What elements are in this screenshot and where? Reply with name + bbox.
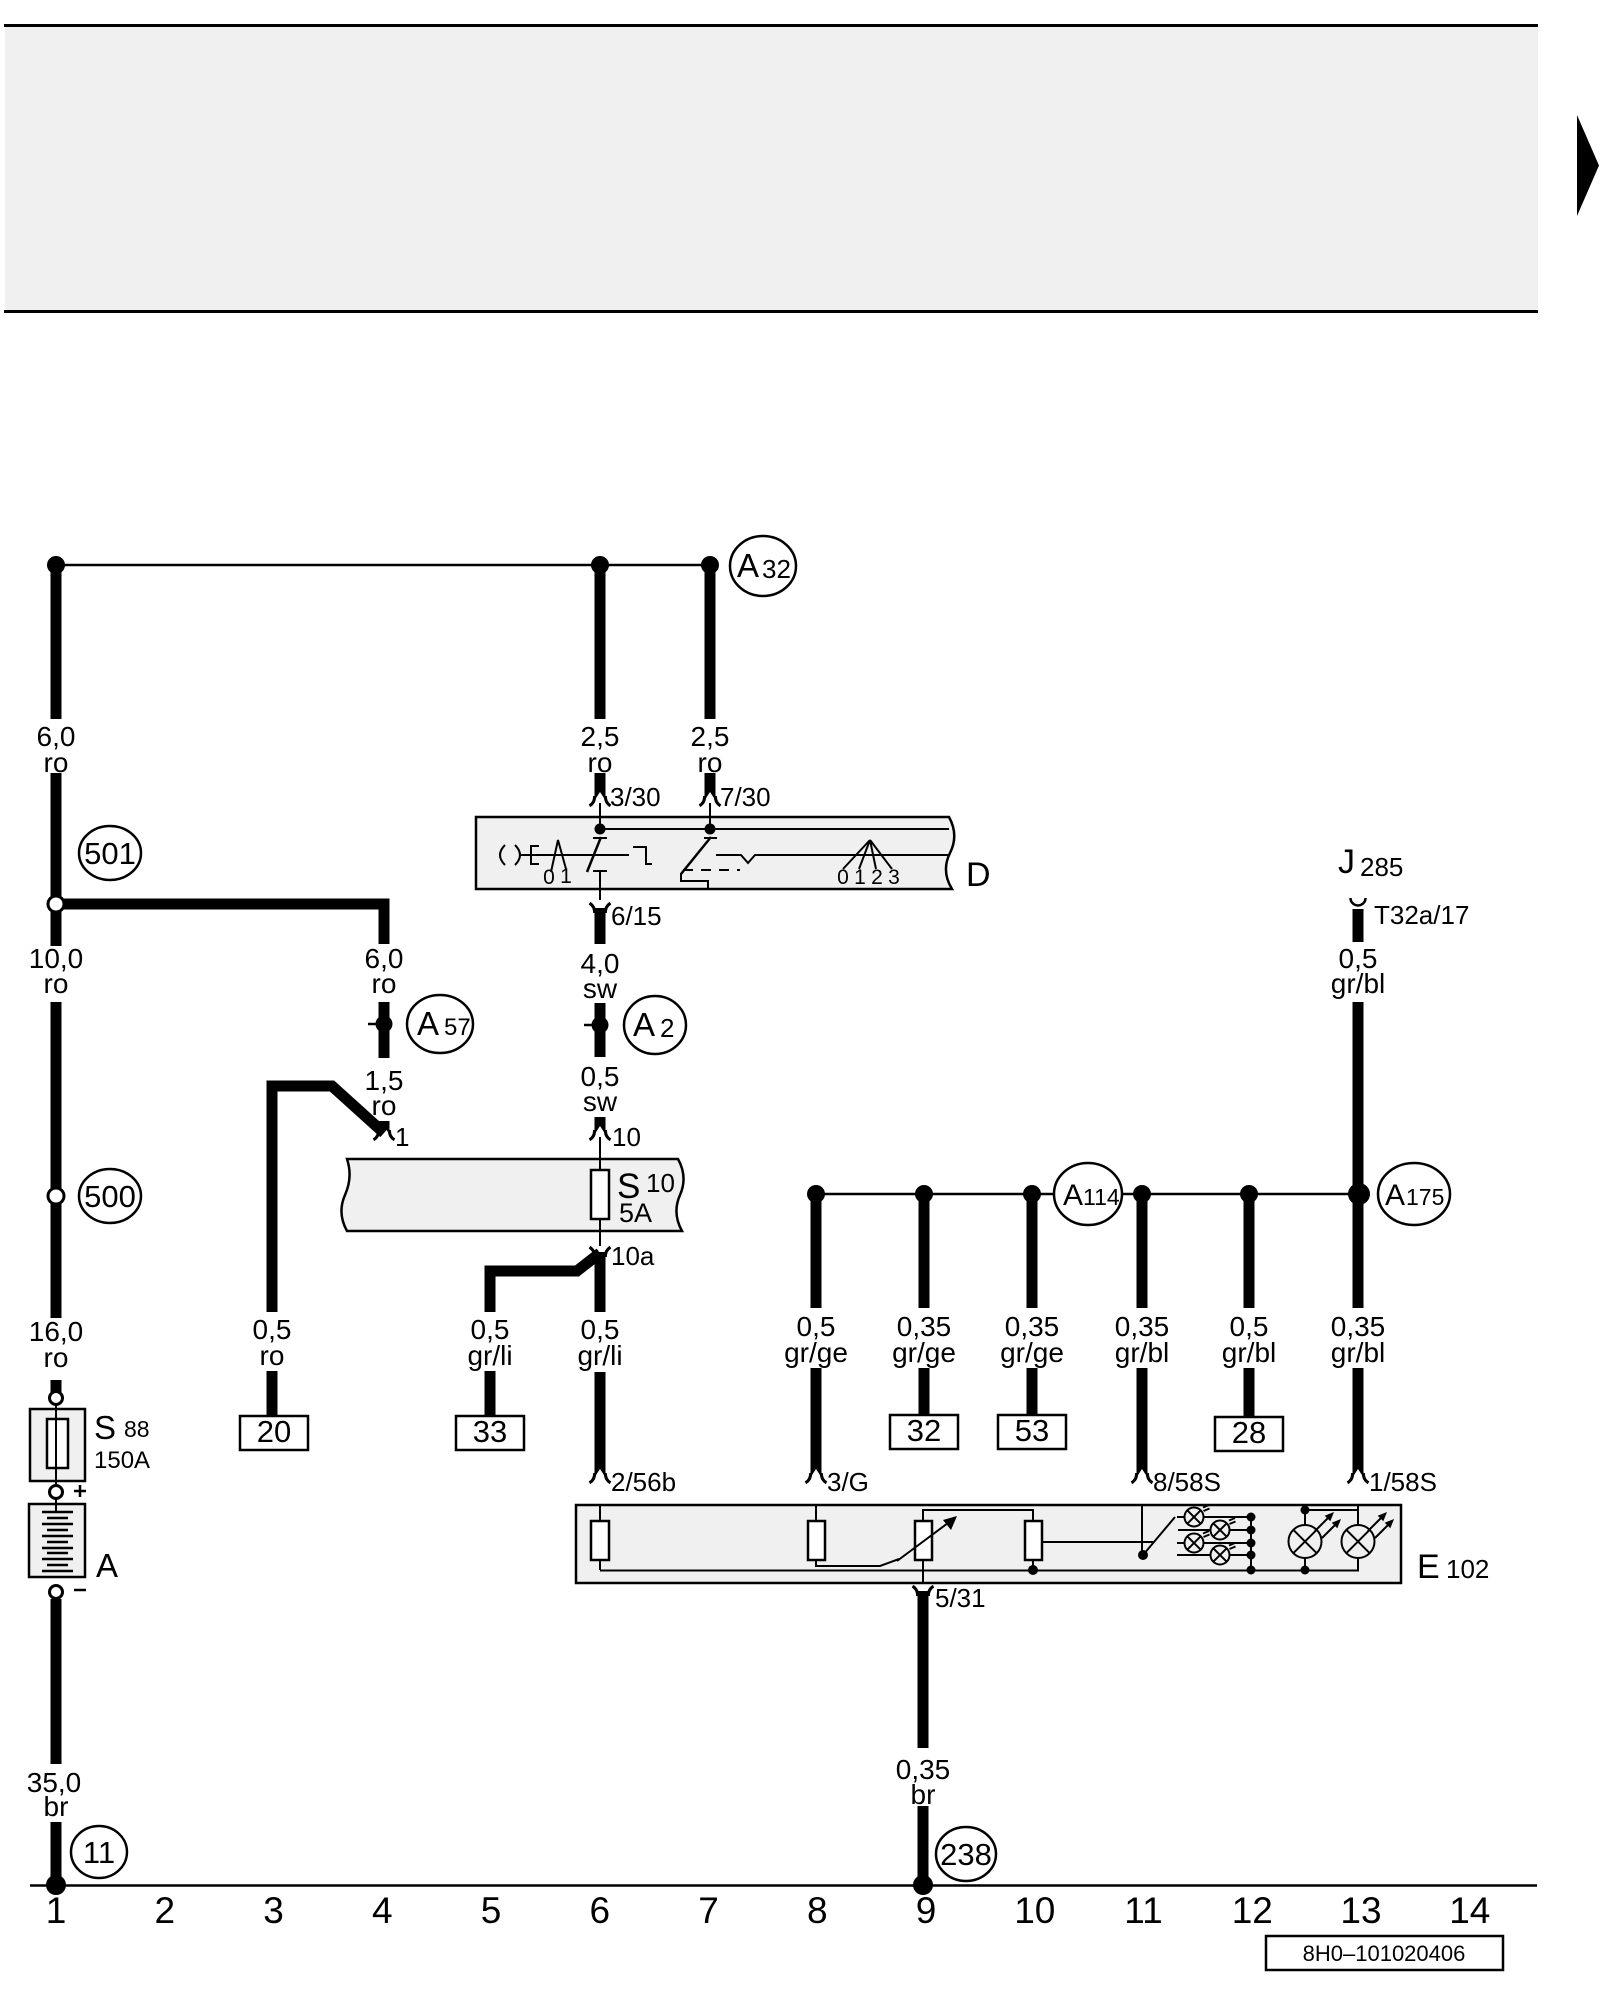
svg-text:A: A xyxy=(737,547,759,584)
svg-text:10: 10 xyxy=(646,1168,675,1198)
wire 0,35 gr/ge to connection 53 xyxy=(1027,1194,1038,1308)
svg-text:A: A xyxy=(417,1005,439,1042)
svg-text:5/31: 5/31 xyxy=(935,1583,986,1613)
resistor at 2/56b xyxy=(591,1521,609,1560)
svg-text:ro: ro xyxy=(372,1090,397,1121)
fuse S88 150A xyxy=(50,1392,63,1405)
wire 2,5 ro to terminal 3/30 xyxy=(595,565,606,719)
pilot lamp 1 xyxy=(1185,1505,1210,1527)
wire junction bus 501 xyxy=(56,904,384,944)
pilot lamp feed lines xyxy=(1177,1516,1251,1518)
svg-text:2: 2 xyxy=(660,1013,674,1043)
starter contact 50 xyxy=(681,837,711,874)
svg-text:11: 11 xyxy=(1124,1890,1162,1931)
wire 0,5 ro elbow to connection 20 xyxy=(272,1086,384,1312)
page-turn arrow xyxy=(1577,115,1599,216)
battery plus terminal xyxy=(50,1486,63,1499)
junction at 1/58S column xyxy=(1348,1183,1370,1205)
svg-text:A: A xyxy=(1063,1179,1083,1212)
svg-text:4: 4 xyxy=(372,1890,393,1931)
svg-text:D: D xyxy=(966,856,991,894)
svg-text:501: 501 xyxy=(84,836,136,871)
svg-text:3: 3 xyxy=(263,1890,284,1931)
svg-text:ro: ro xyxy=(44,968,69,999)
svg-text:175: 175 xyxy=(1406,1184,1444,1210)
svg-text:gr/ge: gr/ge xyxy=(1000,1337,1064,1368)
terminal 1/58S xyxy=(1348,1469,1369,1483)
svg-text:10: 10 xyxy=(612,1122,641,1152)
connector A2 junction xyxy=(584,1024,592,1027)
wire 35,0 br (ground strap) xyxy=(51,1599,62,1764)
svg-text:1: 1 xyxy=(46,1890,67,1931)
internal bottom bus 31 xyxy=(600,1570,1359,1572)
svg-text:10a: 10a xyxy=(611,1241,655,1271)
node at 3/30 xyxy=(595,824,606,835)
terminal 3/G xyxy=(806,1469,827,1483)
pilot lamp 2 xyxy=(1211,1518,1236,1540)
svg-text:500: 500 xyxy=(84,1179,136,1214)
svg-text:9: 9 xyxy=(916,1890,937,1931)
wire 6,0 ro (battery column upper) xyxy=(51,565,62,719)
svg-text:3: 3 xyxy=(888,866,900,889)
wire 0,35 gr/bl to 8/58S xyxy=(1137,1194,1148,1308)
junction at 3/G column xyxy=(807,1185,825,1203)
svg-text:7: 7 xyxy=(698,1890,719,1931)
svg-text:A: A xyxy=(1385,1179,1405,1212)
svg-text:102: 102 xyxy=(1446,1554,1489,1584)
svg-text:53: 53 xyxy=(1015,1413,1049,1448)
svg-text:sw: sw xyxy=(583,1086,618,1117)
svg-text:gr/li: gr/li xyxy=(467,1340,512,1371)
svg-text:238: 238 xyxy=(940,1837,992,1872)
junction at 32 column xyxy=(915,1185,933,1203)
svg-text:28: 28 xyxy=(1232,1415,1266,1450)
diagram number box 8H0-101020406 xyxy=(1266,1936,1503,1970)
svg-text:6: 6 xyxy=(590,1890,611,1931)
svg-text:12: 12 xyxy=(1232,1890,1273,1931)
svg-text:8H0–101020406: 8H0–101020406 xyxy=(1303,1941,1466,1966)
pin 3/30 lead xyxy=(599,803,601,829)
svg-text:8: 8 xyxy=(807,1890,828,1931)
svg-text:J: J xyxy=(1338,843,1355,881)
ignition lock symbol xyxy=(500,845,505,865)
wire 0,35 br from 5/31 xyxy=(918,1591,929,1748)
svg-text:57: 57 xyxy=(444,1014,471,1041)
wire internal bus 30 xyxy=(600,828,949,830)
ignition contact 15 xyxy=(587,837,601,872)
light switch E102 xyxy=(576,1505,1401,1583)
svg-text:14: 14 xyxy=(1449,1890,1490,1931)
terminal 3/30 xyxy=(590,792,611,806)
junction on bus at 3/30 column xyxy=(591,556,609,574)
ignition/starter switch D xyxy=(476,817,954,889)
svg-text:sw: sw xyxy=(583,973,618,1004)
svg-text:3/30: 3/30 xyxy=(610,782,661,812)
svg-text:1: 1 xyxy=(395,1122,409,1152)
svg-text:6/15: 6/15 xyxy=(611,901,662,931)
connector A114 xyxy=(1054,1163,1122,1225)
terminal 1 on fuse box xyxy=(374,1126,395,1140)
node 501 (welded joint) xyxy=(48,896,64,912)
svg-text:E: E xyxy=(1417,1548,1440,1586)
svg-text:0: 0 xyxy=(543,866,555,889)
junction on bus at battery column xyxy=(47,556,65,574)
svg-text:gr/bl: gr/bl xyxy=(1331,1337,1385,1368)
resistor at 3/G xyxy=(808,1521,825,1560)
svg-text:gr/bl: gr/bl xyxy=(1115,1337,1169,1368)
svg-text:2: 2 xyxy=(871,866,883,889)
connection 53 xyxy=(998,1415,1066,1449)
svg-text:7/30: 7/30 xyxy=(720,782,771,812)
wire 0,5 gr/bl to connection 28 xyxy=(1244,1194,1255,1308)
svg-text:2: 2 xyxy=(155,1890,176,1931)
fuse panel with fuse S10 5A xyxy=(341,1159,683,1231)
wire A114/A175 bus (thin) xyxy=(816,1193,1054,1196)
svg-text:br: br xyxy=(44,1791,69,1822)
wire 0,5 gr/bl from J285 xyxy=(1353,909,1364,942)
svg-text:br: br xyxy=(911,1779,936,1810)
svg-text:20: 20 xyxy=(257,1414,291,1449)
svg-text:1: 1 xyxy=(854,866,866,889)
connector A32 xyxy=(730,536,796,596)
svg-text:gr/li: gr/li xyxy=(577,1340,622,1371)
svg-text:A: A xyxy=(633,1006,655,1043)
svg-text:1: 1 xyxy=(560,865,572,888)
svg-text:13: 13 xyxy=(1340,1890,1381,1931)
svg-text:33: 33 xyxy=(473,1414,507,1449)
svg-text:11: 11 xyxy=(83,1835,115,1870)
svg-text:ro: ro xyxy=(44,1342,69,1373)
terminal T32a/17 xyxy=(1351,898,1366,906)
wire 4,0 sw xyxy=(595,908,606,944)
junction on bus at 7/30 column xyxy=(701,556,719,574)
wire 0,5 gr/ge to 3/G xyxy=(811,1194,822,1308)
connection 33 xyxy=(456,1416,524,1450)
svg-text:0: 0 xyxy=(837,866,849,889)
connection 20 xyxy=(240,1416,308,1450)
connection 28 xyxy=(1215,1417,1283,1451)
wire 0,5 gr/li to 2/56b xyxy=(595,1252,606,1312)
header top border xyxy=(4,24,1538,27)
connection 32 xyxy=(890,1415,958,1449)
svg-text:gr/bl: gr/bl xyxy=(1331,968,1385,999)
illumination lamp L1 xyxy=(1289,1510,1342,1570)
wire 16,0 ro xyxy=(51,1203,62,1318)
header bottom border xyxy=(4,310,1538,313)
pilot lamp 4 xyxy=(1211,1543,1236,1565)
svg-text:32: 32 xyxy=(907,1413,941,1448)
svg-text:150A: 150A xyxy=(94,1447,150,1474)
svg-text:5A: 5A xyxy=(619,1198,652,1228)
svg-text:ro: ro xyxy=(260,1340,285,1371)
header panel xyxy=(5,27,1538,310)
wire A32 plus bus (thin) xyxy=(56,564,710,567)
node at 7/30 xyxy=(705,824,716,835)
svg-text:8/58S: 8/58S xyxy=(1153,1467,1221,1497)
battery minus terminal xyxy=(50,1586,63,1599)
connector A175 xyxy=(1378,1163,1450,1225)
svg-text:114: 114 xyxy=(1083,1184,1120,1210)
pin 6/15 lead xyxy=(599,889,601,900)
ground point 11 xyxy=(46,1875,66,1895)
wire 2,5 ro to terminal 7/30 xyxy=(705,565,716,719)
junction at 28 column xyxy=(1240,1185,1258,1203)
svg-text:3/G: 3/G xyxy=(827,1467,869,1497)
svg-text:1/58S: 1/58S xyxy=(1369,1467,1437,1497)
junction at 8/58S column xyxy=(1133,1185,1151,1203)
wire 0,5 gr/li elbow to connection 33 xyxy=(490,1253,600,1312)
switch contact 58S xyxy=(1141,1505,1143,1552)
terminal 10a xyxy=(590,1247,611,1261)
svg-text:88: 88 xyxy=(124,1416,150,1442)
junction at 53 column xyxy=(1023,1185,1041,1203)
svg-text:285: 285 xyxy=(1360,852,1403,882)
svg-text:S: S xyxy=(94,1409,116,1446)
wire 10,0 ro xyxy=(51,911,62,946)
lamp bus with junctions xyxy=(1250,1517,1252,1570)
connector A57 junction xyxy=(368,1023,376,1026)
node 500 (welded joint) xyxy=(48,1188,64,1204)
svg-text:5: 5 xyxy=(481,1890,502,1931)
illumination lamp L2 xyxy=(1342,1505,1395,1570)
svg-text:gr/ge: gr/ge xyxy=(784,1337,848,1368)
wire continuation notch xyxy=(716,855,949,863)
svg-text:2/56b: 2/56b xyxy=(611,1467,676,1497)
pilot lamp 3 xyxy=(1185,1531,1210,1553)
svg-text:A: A xyxy=(96,1547,118,1584)
terminal 7/30 xyxy=(700,792,721,806)
pin 7/30 lead xyxy=(709,803,711,829)
fuse S10 xyxy=(591,1170,609,1219)
resistor to switch xyxy=(1025,1521,1042,1560)
terminal 8/58S xyxy=(1132,1469,1153,1483)
svg-text:32: 32 xyxy=(762,554,791,584)
svg-text:T32a/17: T32a/17 xyxy=(1374,900,1469,930)
terminal 5/31 xyxy=(913,1586,934,1600)
terminal 6/15 xyxy=(590,903,611,917)
wire 0,35 gr/ge to connection 32 xyxy=(919,1194,930,1308)
potentiometer (dimmer) xyxy=(915,1521,932,1560)
terminal 2/56b xyxy=(590,1469,611,1483)
bottom current track rule xyxy=(30,1884,1537,1887)
ground point 238 xyxy=(913,1875,933,1895)
position fan 0 1 2 3 xyxy=(843,840,892,869)
terminal 10 on fuse box xyxy=(590,1126,611,1140)
svg-text:gr/ge: gr/ge xyxy=(892,1337,956,1368)
svg-text:10: 10 xyxy=(1014,1890,1055,1931)
svg-text:gr/bl: gr/bl xyxy=(1222,1337,1276,1368)
battery A xyxy=(29,1504,85,1577)
svg-text:ro: ro xyxy=(372,968,397,999)
